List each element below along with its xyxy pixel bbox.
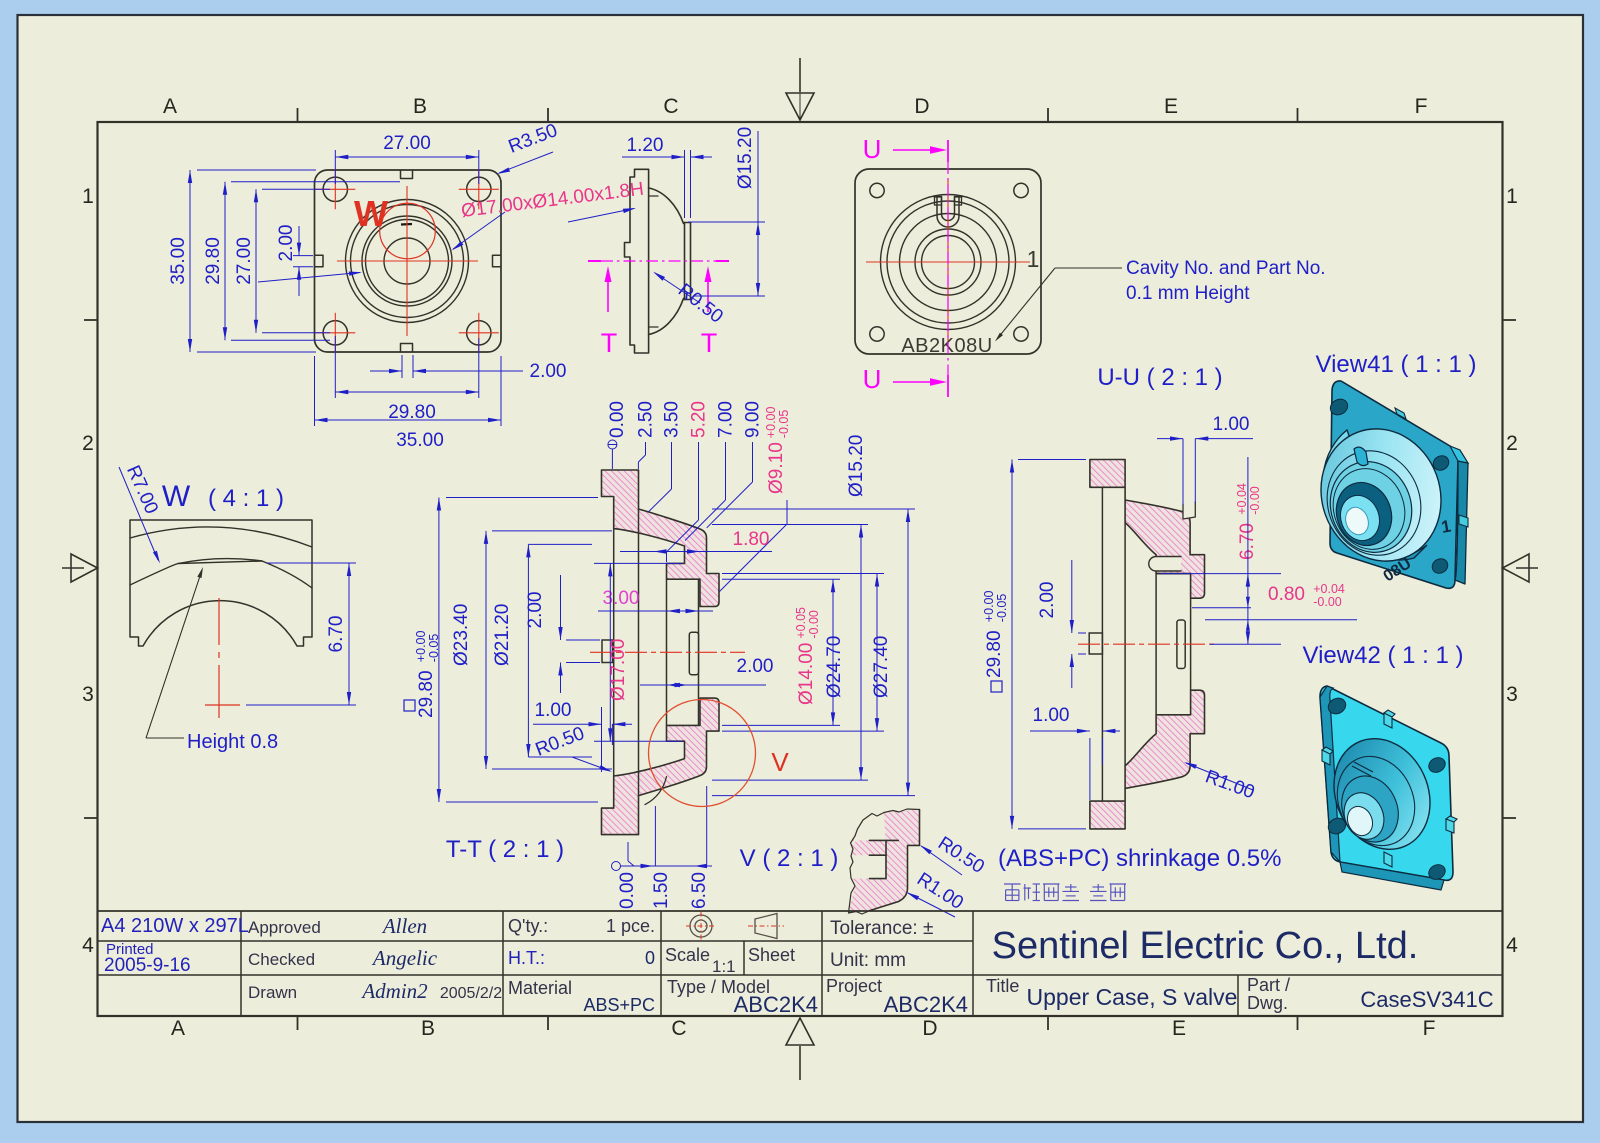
red detail circle W	[380, 203, 436, 259]
svg-text:E: E	[1164, 95, 1178, 118]
concentric boss circles	[346, 200, 469, 323]
svg-text:Cavity No. and Part No.: Cavity No. and Part No.	[1126, 258, 1326, 279]
V detail dim R0.50	[921, 846, 962, 875]
slot detail rect at centerline	[689, 632, 698, 675]
svg-text:Ø17.00: Ø17.00	[608, 639, 629, 701]
svg-text:U-U ( 2 : 1 ): U-U ( 2 : 1 )	[1097, 364, 1222, 391]
dim R3.50 leader	[499, 152, 553, 173]
svg-text:-0.05: -0.05	[427, 634, 441, 663]
svg-text:(ABS+PC) shrinkage 0.5%: (ABS+PC) shrinkage 0.5%	[998, 845, 1281, 872]
U-U dim 2.00	[1078, 632, 1086, 634]
slot marks on dome	[1352, 766, 1371, 776]
svg-text:3: 3	[82, 683, 94, 706]
svg-text:9.00: 9.00	[743, 401, 764, 438]
corner holes	[1327, 396, 1350, 418]
detail block outline	[130, 520, 312, 646]
svg-text:AB2K08U: AB2K08U	[901, 335, 992, 357]
dim 6.70	[267, 562, 356, 564]
svg-text:Title: Title	[986, 976, 1019, 996]
svg-text:0.1 mm Height: 0.1 mm Height	[1126, 283, 1250, 304]
svg-text:2005-9-16: 2005-9-16	[104, 955, 191, 976]
svg-text:A: A	[163, 95, 177, 118]
svg-text:B: B	[413, 95, 427, 118]
svg-text:Scale: Scale	[665, 945, 710, 965]
svg-text:1.80: 1.80	[733, 529, 770, 550]
svg-text:1 pce.: 1 pce.	[606, 916, 655, 936]
U-U dim 0.80 pink	[1192, 607, 1251, 609]
view: View41 3D isometric	[1303, 381, 1468, 588]
white notch lower	[851, 855, 886, 878]
view: top-left plan view of square flange	[315, 169, 502, 352]
svg-text:C: C	[663, 95, 678, 118]
square plate outline	[855, 169, 1041, 354]
svg-text:1: 1	[82, 185, 94, 208]
edge notch top	[401, 171, 413, 179]
svg-text:Allen: Allen	[381, 914, 427, 938]
svg-text:1: 1	[1027, 246, 1040, 272]
bolt holes with red crosshairs	[323, 177, 347, 201]
U-U dim 6.70 pink	[1235, 483, 1262, 560]
svg-text:-0.00: -0.00	[1248, 486, 1262, 515]
svg-text:( 4 : 1 ): ( 4 : 1 )	[208, 485, 284, 512]
svg-text:+0.05: +0.05	[794, 607, 808, 639]
keyhole slot on boss	[1354, 447, 1368, 466]
dim R7.00 leader	[119, 467, 158, 560]
svg-text:D: D	[914, 95, 929, 118]
svg-text:T: T	[701, 328, 718, 358]
svg-text:0.00: 0.00	[617, 872, 638, 909]
svg-text:27.00: 27.00	[383, 133, 431, 154]
svg-text:2: 2	[1506, 432, 1518, 455]
svg-text:Ø15.20: Ø15.20	[846, 435, 867, 497]
pink label dia17x dia14 x1.8H	[460, 179, 645, 222]
svg-text:C: C	[671, 1017, 686, 1040]
svg-text:27.00: 27.00	[234, 237, 255, 285]
svg-text:U: U	[863, 364, 882, 394]
view: top-right plan view	[855, 169, 1041, 357]
svg-text:+0.04: +0.04	[1313, 582, 1345, 596]
dim 2.00 bottom notch	[401, 355, 403, 378]
dim R0.50 leader	[655, 273, 700, 303]
view: View42 3D isometric	[1317, 686, 1457, 890]
lower hatched section (mirror)	[1090, 690, 1205, 829]
svg-text:W: W	[162, 480, 191, 513]
svg-text:F: F	[1423, 1017, 1436, 1040]
dim 29.80 left	[231, 181, 400, 183]
svg-text:2.00: 2.00	[1037, 582, 1058, 619]
plate 3d	[1330, 381, 1458, 588]
dim dia23.40	[492, 530, 612, 532]
svg-text:ABC2K4: ABC2K4	[884, 992, 968, 1017]
section line T-T magenta	[588, 260, 601, 262]
col4: projection symbols	[690, 915, 712, 937]
drawing frame	[98, 122, 1503, 1016]
svg-text:4: 4	[1506, 934, 1518, 957]
svg-text:Ø14.00: Ø14.00	[796, 643, 817, 705]
svg-text:2.00: 2.00	[525, 592, 546, 629]
view: V 2:1 detail	[849, 809, 920, 914]
svg-text:35.00: 35.00	[396, 430, 444, 451]
dim 1.20 tip	[684, 150, 686, 218]
flat mark on circle top	[401, 223, 412, 226]
svg-text:29.80: 29.80	[203, 237, 224, 285]
V detail circle red	[649, 700, 756, 807]
svg-text:-0.00: -0.00	[807, 610, 821, 639]
boss rect on left face	[1089, 633, 1102, 654]
dim dia 15.20	[688, 221, 765, 223]
dome tip cylinder	[684, 223, 686, 300]
svg-text:5.20: 5.20	[689, 401, 710, 438]
dim 2.00 left notch	[293, 255, 313, 257]
svg-text:U: U	[863, 134, 882, 164]
red center mark	[218, 598, 220, 645]
bolt holes	[870, 183, 884, 197]
mid arc with flat	[130, 561, 312, 588]
dim 29.80 sq	[446, 497, 598, 499]
svg-text:E: E	[1172, 1017, 1186, 1040]
svg-text:Part /: Part /	[1247, 975, 1290, 995]
dim 35.00 bottom	[314, 356, 316, 426]
dome	[1317, 723, 1447, 865]
flange plate side profile	[625, 169, 649, 353]
svg-text:+0.04: +0.04	[1235, 483, 1249, 515]
centering arrow top	[799, 58, 801, 92]
svg-text:Q'ty.:: Q'ty.:	[508, 916, 548, 936]
red crosshair	[866, 261, 1030, 263]
svg-text:V: V	[771, 747, 789, 777]
inner bore wall (not hatched)	[666, 579, 668, 725]
svg-text:B: B	[421, 1017, 435, 1040]
svg-text:1.20: 1.20	[627, 135, 664, 156]
svg-text:1:1: 1:1	[712, 957, 736, 976]
svg-text:ABC2K4: ABC2K4	[734, 992, 818, 1017]
svg-text:-0.00: -0.00	[1313, 595, 1342, 609]
concentric circles	[881, 195, 1016, 330]
plate 3d	[1320, 686, 1453, 880]
svg-text:Dwg.: Dwg.	[1247, 993, 1288, 1013]
corner holes	[1326, 695, 1349, 717]
svg-text:F: F	[1415, 95, 1428, 118]
svg-text:2005/2/2: 2005/2/2	[440, 985, 502, 1002]
svg-text:2.50: 2.50	[636, 401, 657, 438]
red centerline	[590, 651, 745, 653]
svg-text:W: W	[354, 193, 388, 234]
svg-text:3: 3	[1506, 683, 1518, 706]
svg-text:-0.05: -0.05	[777, 410, 791, 439]
svg-text:1.00: 1.00	[535, 700, 572, 721]
part edges dark	[869, 839, 898, 841]
keyhole slot cut at cone top	[1183, 502, 1195, 519]
centering arrow bottom	[799, 1046, 801, 1080]
dim 29.80 bottom	[334, 336, 336, 398]
keyhole slot	[937, 197, 959, 227]
square flange plate outline	[315, 170, 502, 352]
dim 2.00 small	[566, 639, 600, 641]
svg-text:Angelic: Angelic	[371, 946, 438, 970]
svg-text:6.70: 6.70	[326, 616, 347, 653]
view: W 4:1 detail	[130, 520, 312, 718]
note chinese label	[1004, 883, 1021, 885]
dim dia17.00 pink	[594, 562, 682, 564]
svg-text:Approved: Approved	[248, 918, 321, 937]
dome profile	[649, 188, 684, 224]
svg-text:Ø15.20: Ø15.20	[735, 127, 756, 189]
svg-text:2: 2	[82, 432, 94, 455]
svg-text:Drawn: Drawn	[248, 983, 297, 1002]
svg-text:4: 4	[82, 934, 94, 957]
plate left side face	[1320, 686, 1340, 862]
svg-text:1: 1	[1506, 185, 1518, 208]
svg-text:H.T.:: H.T.:	[508, 948, 545, 968]
svg-text:T-T ( 2 : 1 ): T-T ( 2 : 1 )	[446, 836, 564, 863]
svg-text:Project: Project	[826, 976, 882, 996]
height 0.8 leader	[146, 737, 184, 739]
inner bore wall lines	[1155, 574, 1157, 715]
U-U left dim 29.80 sq	[1018, 459, 1086, 461]
lower hatched wall section (mirror)	[602, 698, 720, 835]
step lines on dome	[649, 196, 658, 327]
edge notch bottom	[401, 344, 413, 352]
dim dia24.70	[712, 524, 868, 526]
svg-text:Sheet: Sheet	[748, 945, 795, 965]
flange bar edges	[1101, 487, 1103, 801]
centering arrow left	[62, 567, 84, 569]
edge tabs	[1395, 408, 1406, 419]
svg-text:35.00: 35.00	[168, 237, 189, 285]
view: top-middle side elevation	[625, 169, 691, 353]
edge tabs 3d	[1384, 710, 1395, 728]
plate side face	[1455, 461, 1468, 584]
keyhole slot cut white	[1149, 557, 1181, 572]
svg-text:1.00: 1.00	[1213, 414, 1250, 435]
hatched fragment	[849, 810, 920, 914]
boss ring	[1313, 437, 1436, 568]
centering arrow right	[1516, 567, 1538, 569]
section line U-U magenta	[947, 140, 949, 162]
svg-text:3.00: 3.00	[603, 588, 640, 609]
svg-text:0: 0	[645, 948, 655, 968]
svg-text:1.50: 1.50	[651, 872, 672, 909]
view: T-T 2:1 section	[590, 470, 745, 835]
flange bar inner edges	[613, 529, 615, 776]
svg-text:+0.00: +0.00	[764, 407, 778, 439]
dim dia27.40	[712, 508, 915, 510]
bore	[1328, 475, 1401, 554]
svg-text:Unit: mm: Unit: mm	[830, 950, 906, 971]
slot detail rect	[1177, 620, 1185, 669]
svg-text:2.00: 2.00	[530, 361, 567, 382]
svg-text:29.80: 29.80	[416, 670, 437, 718]
white notch upper left	[853, 813, 886, 844]
svg-text:3.50: 3.50	[662, 401, 683, 438]
svg-text:0.00: 0.00	[607, 401, 628, 438]
U-U dim R1.00 leader	[1186, 763, 1253, 790]
svg-text:6.50: 6.50	[689, 872, 710, 909]
upper hatched section	[1090, 460, 1205, 599]
svg-text:Material: Material	[508, 978, 572, 998]
svg-text:T: T	[601, 328, 618, 358]
svg-text:+0.00: +0.00	[982, 591, 996, 623]
svg-text:Ø24.70: Ø24.70	[824, 636, 845, 698]
svg-text:Tolerance: ±: Tolerance: ±	[830, 918, 933, 939]
upper arc	[130, 527, 312, 547]
svg-text:A: A	[171, 1017, 185, 1040]
upper hatched wall section	[602, 470, 720, 607]
svg-text:View41 ( 1 : 1 ): View41 ( 1 : 1 )	[1316, 351, 1477, 378]
leader to cavity note	[997, 268, 1055, 339]
svg-text:A4 210W x 297L: A4 210W x 297L	[101, 915, 249, 937]
svg-text:D: D	[922, 1017, 937, 1040]
svg-text:+0.00: +0.00	[414, 631, 428, 663]
T-T bottom ordinate dims	[612, 862, 621, 871]
boss rect on left face	[602, 640, 613, 663]
svg-text:2.00: 2.00	[276, 225, 297, 262]
svg-text:Upper Case, S valve: Upper Case, S valve	[1027, 984, 1238, 1010]
svg-text:Admin2: Admin2	[360, 979, 428, 1003]
svg-text:7.00: 7.00	[716, 401, 737, 438]
svg-text:1.00: 1.00	[1033, 705, 1070, 726]
dim dia21.20	[528, 543, 592, 545]
svg-text:Ø21.20: Ø21.20	[492, 604, 513, 666]
svg-text:V ( 2 : 1 ): V ( 2 : 1 )	[740, 845, 839, 872]
edge notch right	[493, 255, 501, 266]
dim 35.00 left	[197, 169, 316, 171]
svg-text:ABS+PC: ABS+PC	[583, 995, 655, 1015]
edge notch left	[315, 255, 323, 266]
svg-text:29.80: 29.80	[984, 630, 1005, 678]
fillet curve visible in lower block	[645, 777, 667, 805]
svg-text:Checked: Checked	[248, 950, 315, 969]
center crosshair red	[337, 260, 478, 262]
svg-text:View42 ( 1 : 1 ): View42 ( 1 : 1 )	[1303, 642, 1464, 669]
svg-text:2.00: 2.00	[737, 656, 774, 677]
leader arrow to boss circle	[258, 273, 360, 283]
svg-text:Ø23.40: Ø23.40	[451, 604, 472, 666]
svg-text:Ø9.10: Ø9.10	[766, 442, 787, 494]
red centerline	[1078, 643, 1215, 645]
dim dia9.10 pink ordinate	[764, 407, 791, 494]
svg-text:Height 0.8: Height 0.8	[187, 731, 278, 753]
dim 27.00 top	[334, 150, 336, 184]
view: U-U 2:1 section	[1078, 460, 1215, 829]
title block table	[98, 910, 1503, 912]
svg-text:Ø27.40: Ø27.40	[871, 636, 892, 698]
svg-text:0.80: 0.80	[1268, 584, 1305, 605]
svg-text:-0.05: -0.05	[995, 594, 1009, 623]
jagged break lines	[849, 813, 885, 915]
svg-text:CaseSV341C: CaseSV341C	[1360, 987, 1493, 1012]
dim 27.00 left	[262, 188, 330, 190]
boss outer cylinder	[1323, 430, 1427, 560]
dim dia14.00 pink	[722, 578, 840, 580]
V detail dim R1.00	[908, 893, 955, 917]
svg-text:Sentinel Electric Co., Ltd.: Sentinel Electric Co., Ltd.	[992, 925, 1419, 967]
